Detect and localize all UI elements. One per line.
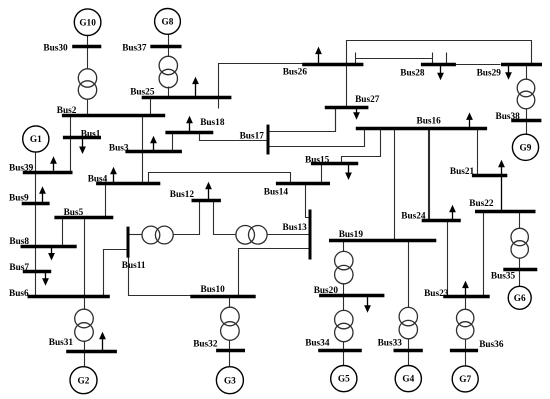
transformer T23-36 (457, 309, 474, 339)
svg-text:Bus25: Bus25 (130, 87, 155, 97)
load arrow load Bus27 (353, 107, 360, 120)
svg-text:Bus29: Bus29 (477, 69, 502, 79)
bus Bus30 (43, 43, 101, 53)
load arrow load Bus18 (186, 116, 193, 132)
load arrow load Bus28 (437, 64, 444, 80)
load arrow load Bus25 (192, 77, 199, 98)
bus Bus36 (450, 340, 504, 351)
wire Bus25-Bus26 (219, 64, 303, 109)
svg-text:Bus28: Bus28 (400, 69, 425, 79)
wire Bus12-T12-13 (214, 201, 237, 235)
load arrow load Bus39 (50, 156, 57, 170)
transformer T29-38 (517, 79, 535, 109)
wire Bus6-Bus11 (104, 250, 129, 297)
wire T11-12-Bus12 (174, 201, 200, 235)
bus Bus7 (9, 263, 51, 273)
svg-text:Bus21: Bus21 (450, 167, 475, 177)
wire Bus20-T34 (343, 296, 345, 311)
generator G2 (70, 367, 97, 394)
svg-text:Bus14: Bus14 (264, 188, 289, 198)
wire Bus16-Bus24 (428, 128, 430, 220)
wire T20-Bus20 (343, 284, 345, 296)
svg-text:Bus23: Bus23 (424, 289, 449, 299)
bus Bus26 (283, 65, 364, 78)
svg-text:Bus2: Bus2 (57, 106, 77, 116)
svg-text:Bus38: Bus38 (496, 112, 521, 122)
load arrow load Bus29 (505, 64, 512, 80)
wire Bus24-Bus23 (447, 221, 449, 297)
wire Bus19-T20 (343, 241, 345, 252)
load arrow load Bus4 (110, 167, 117, 184)
wire Bus29-T38 (526, 65, 528, 80)
generator G6 (508, 286, 531, 309)
bus Bus2 (57, 106, 165, 116)
load arrow load Bus1 (79, 138, 86, 154)
bus Bus18 (165, 118, 224, 132)
svg-text:Bus31: Bus31 (49, 338, 74, 348)
transformer T19-33 (399, 307, 417, 338)
load arrow load Bus8 (48, 246, 55, 260)
wire Bus10-T32 (229, 297, 231, 308)
transformer T10-32 (221, 307, 240, 340)
svg-text:Bus6: Bus6 (9, 289, 29, 299)
svg-text:Bus24: Bus24 (401, 212, 426, 222)
svg-text:Bus12: Bus12 (170, 190, 195, 200)
svg-text:Bus16: Bus16 (417, 117, 442, 127)
wire Bus39-Bus9-Bus8-Bus7-Bus6 (35, 173, 37, 297)
bus Bus11 (122, 227, 146, 271)
wire T31-Bus31-G2 (84, 341, 86, 367)
wire Bus22-Bus23 (483, 212, 485, 297)
load arrow load Bus22 (498, 160, 505, 212)
wire Bus28-Bus29 (456, 64, 501, 66)
bus Bus16 (356, 117, 487, 129)
generator G7 (452, 366, 478, 392)
transformer T22-35 (511, 228, 528, 258)
bus Bus24 (401, 212, 461, 222)
bus Bus12 (170, 190, 221, 201)
svg-text:Bus3: Bus3 (109, 143, 129, 153)
svg-text:Bus35: Bus35 (491, 271, 516, 281)
wire T36-Bus36-G7 (465, 339, 467, 366)
bus Bus19 (329, 230, 436, 240)
wire T30-Bus2 (87, 99, 89, 116)
bus Bus38 (496, 112, 542, 122)
load arrow load Bus23 (462, 281, 469, 297)
bus Bus1 (63, 130, 101, 140)
wire Bus11-T11-12 (129, 234, 143, 236)
wire Bus15-Bus14 (321, 164, 323, 184)
svg-text:G10: G10 (79, 18, 96, 28)
wire T35-Bus35-G6 (519, 259, 521, 287)
svg-text:G8: G8 (162, 18, 174, 28)
wire Bus26-Bus27 (346, 65, 348, 108)
svg-text:Bus37: Bus37 (122, 44, 147, 54)
load arrow load Bus24 (449, 205, 456, 221)
transformer T30-2 (78, 69, 96, 99)
bus Bus5 (54, 208, 113, 218)
wire Bus14-Bus13 (306, 184, 310, 218)
wire Bus16-Bus21 (477, 129, 479, 176)
bus Bus28 (400, 65, 456, 79)
svg-text:Bus18: Bus18 (200, 118, 225, 128)
svg-text:Bus13: Bus13 (283, 223, 308, 233)
load arrow load Bus26 (315, 47, 322, 65)
svg-text:Bus7: Bus7 (9, 263, 29, 273)
generator G3 (216, 367, 243, 394)
generator G5 (331, 366, 357, 392)
bus Bus22 (469, 199, 535, 211)
wire Bus26-Bus28-h (356, 58, 433, 60)
wire Bus13-Bus10 (239, 249, 310, 297)
load arrow load Bus20 (364, 296, 371, 313)
bus Bus14 (264, 184, 330, 198)
svg-text:Bus4: Bus4 (88, 174, 108, 184)
wire T38-Bus38-G9 (526, 109, 528, 135)
bus Bus35 (491, 270, 537, 282)
wire Bus26-Bus28-stub-right (432, 53, 434, 65)
bus Bus15 (305, 156, 358, 166)
svg-text:Bus15: Bus15 (305, 156, 330, 166)
svg-text:Bus9: Bus9 (9, 194, 29, 204)
svg-text:G9: G9 (520, 143, 532, 153)
wire Bus26-Bus28-stub-left (355, 53, 357, 65)
svg-text:Bus30: Bus30 (43, 43, 68, 53)
svg-text:Bus20: Bus20 (314, 286, 339, 296)
wire Bus11-Bus10 (129, 258, 191, 296)
transformer T11-12 (142, 226, 173, 244)
bus Bus27 (325, 95, 380, 108)
svg-text:Bus19: Bus19 (339, 230, 364, 240)
transformer T6-31 (75, 309, 94, 341)
wire G8-T37 (168, 35, 170, 57)
svg-text:Bus33: Bus33 (378, 338, 403, 348)
transformer T12-13 (236, 226, 267, 245)
svg-text:G2: G2 (78, 376, 90, 386)
wire Bus15-Bus16 (342, 129, 381, 164)
wire G1-Bus39 (35, 153, 37, 173)
load arrow load Bus12 (205, 182, 212, 201)
svg-text:G6: G6 (514, 294, 526, 304)
transformer T37-25 (159, 56, 177, 87)
bus Bus37 (122, 44, 181, 54)
generator G1 (23, 126, 49, 152)
wire Bus2-Bus1-Bus39 (70, 116, 72, 173)
generator G10 (74, 9, 101, 36)
generator G4 (395, 366, 421, 392)
svg-text:G7: G7 (459, 375, 471, 385)
svg-text:Bus36: Bus36 (479, 340, 504, 350)
bus Bus33 (378, 338, 423, 350)
svg-text:G4: G4 (402, 375, 414, 385)
wire Bus18-Bus17 (200, 133, 268, 141)
bus Bus20 (314, 286, 385, 296)
wire T33-Bus33-G4 (408, 339, 410, 366)
transformer T20-34 (335, 310, 353, 341)
wire T32-Bus32-G3 (229, 341, 231, 367)
svg-text:Bus26: Bus26 (283, 68, 308, 78)
transformer T19-20 (335, 251, 353, 283)
wire G10-T30 (87, 36, 89, 70)
wire Bus2-Bus3-Bus4 (142, 116, 144, 184)
svg-text:Bus34: Bus34 (305, 339, 330, 349)
bus Bus39 (9, 163, 73, 173)
wire Bus26-corner-Bus29 (347, 41, 532, 65)
wire Bus23-T36 (465, 297, 467, 310)
load arrow load Bus7 (42, 271, 49, 286)
svg-text:Bus5: Bus5 (64, 208, 84, 218)
svg-text:Bus10: Bus10 (201, 285, 226, 295)
generator G8 (155, 9, 181, 35)
bus Bus3 (109, 143, 182, 153)
wire Bus27-Bus17-v (335, 108, 337, 132)
bus Bus4 (88, 174, 161, 184)
wire Bus28-stub (446, 53, 448, 65)
svg-text:Bus22: Bus22 (469, 199, 494, 209)
bus Bus32 (193, 340, 245, 351)
svg-text:Bus11: Bus11 (122, 261, 146, 271)
bus Bus10 (190, 285, 255, 297)
bus Bus25 (130, 87, 231, 97)
svg-text:G3: G3 (224, 376, 236, 386)
bus Bus21 (450, 167, 507, 177)
bus Bus34 (305, 339, 362, 351)
load arrow load Bus16 (466, 112, 473, 128)
svg-text:Bus1: Bus1 (81, 130, 101, 140)
wire Bus22-T35 (519, 212, 521, 229)
bus Bus13 (283, 210, 311, 260)
bus Bus17 (240, 125, 268, 155)
wire T34-Bus34-G5 (343, 342, 345, 366)
wire Bus5-Bus8 (62, 218, 64, 247)
load arrow load Bus3 (150, 136, 157, 152)
wire Bus6-T31 (84, 297, 86, 310)
svg-text:G1: G1 (30, 135, 42, 145)
load arrow load Bus31 (99, 332, 106, 351)
wire Bus4-Bus5 (105, 184, 107, 218)
wire Bus18-Bus3 (172, 133, 174, 152)
wire T12-13-Bus13 (267, 234, 310, 236)
wire Bus4-Bus14 (149, 173, 291, 184)
wire Bus19-T33 (408, 241, 410, 308)
wire Bus16-Bus19 (394, 129, 396, 241)
wire Bus25-Bus2 (150, 98, 152, 116)
wire Bus17-Bus27 (268, 108, 336, 132)
svg-text:G5: G5 (338, 375, 350, 385)
svg-text:Bus8: Bus8 (9, 237, 29, 247)
wire Bus17-Bus16 (268, 129, 365, 147)
bus Bus9 (9, 194, 50, 204)
load arrow load Bus15 (345, 164, 352, 180)
bus Bus6 (9, 289, 110, 299)
bus Bus23 (424, 289, 490, 299)
generator G9 (512, 134, 538, 160)
load arrow load Bus9 (39, 186, 46, 202)
svg-text:Bus17: Bus17 (240, 132, 265, 142)
bus Bus29 (477, 65, 542, 79)
svg-text:Bus32: Bus32 (193, 340, 218, 350)
svg-text:Bus27: Bus27 (355, 95, 380, 105)
wire T37-Bus25 (168, 87, 170, 98)
svg-text:Bus39: Bus39 (9, 163, 34, 173)
bus Bus8 (9, 237, 76, 247)
wire Bus5-Bus6 (84, 218, 86, 297)
bus Bus31 (49, 338, 117, 352)
